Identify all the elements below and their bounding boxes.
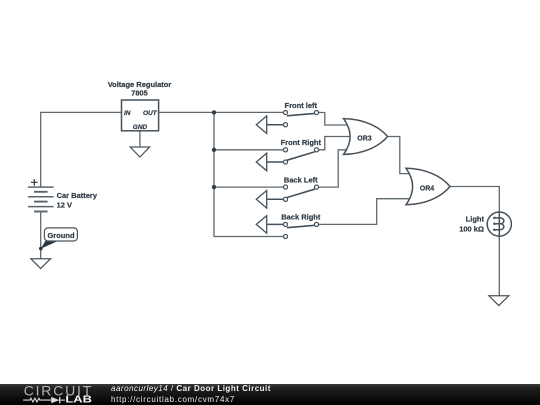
svg-text:LAB: LAB (65, 395, 92, 405)
switch arm SW4 (287, 225, 315, 227)
wire: regulator GND pin (139, 131, 141, 147)
svg-text:100 kΩ: 100 kΩ (459, 225, 484, 234)
or-gate OR3 (344, 119, 388, 155)
svg-text:Light: Light (466, 215, 485, 224)
switch SW3: Back Left (256, 175, 318, 208)
OR4 gate body (406, 168, 450, 204)
svg-text:Car Battery: Car Battery (57, 191, 98, 200)
switch arm SW2 (287, 152, 315, 160)
svg-text:Front Right: Front Right (281, 138, 322, 147)
wire: bus to Front Right switch (214, 149, 284, 151)
actuator triangle SW3 (256, 191, 266, 209)
actuator triangle SW1 (256, 116, 266, 134)
wire: battery + up to regulator IN (41, 112, 122, 187)
battery plus sign (31, 179, 38, 186)
lamp: Light 100 kΩ (487, 212, 511, 236)
OR3 gate body (344, 119, 388, 155)
footer text line 2 (111, 395, 235, 404)
SW1 terminal C (314, 110, 318, 114)
lamp envelope circle (487, 212, 511, 236)
wire: Back Left switch to OR3 input 3 (319, 150, 348, 187)
actuator link SW1 (267, 124, 284, 126)
wire: OR4 output to lamp (450, 187, 500, 213)
svg-text:OR4: OR4 (420, 186, 435, 193)
wire: bus to Back Left switch (214, 186, 284, 188)
or-gate OR4 (406, 168, 450, 204)
switch arm SW1 (287, 113, 315, 115)
annotation: Ground bubble (39, 228, 77, 251)
label: Voltage Regulator 7805 (108, 80, 172, 98)
wire: Front Right switch to OR3 input 2 (319, 137, 352, 150)
svg-text:Back Left: Back Left (284, 175, 318, 184)
svg-text:Back Right: Back Right (281, 213, 321, 222)
svg-text:Front left: Front left (285, 101, 318, 110)
ground bubble pointer (41, 240, 60, 249)
SW1 terminal B (283, 123, 287, 127)
wire: lamp to ground (498, 236, 500, 296)
actuator triangle SW4 (256, 216, 266, 234)
regulator body (122, 100, 159, 131)
lamp filament coil (494, 218, 504, 230)
switch arm SW3 (287, 189, 315, 197)
ground: under regulator (130, 147, 149, 157)
circuitlab logo (0, 384, 110, 405)
ground: below battery (31, 259, 51, 269)
svg-text:7805: 7805 (131, 89, 148, 98)
SW3 terminal B (283, 197, 287, 201)
wire: battery negative down to ground (40, 212, 42, 259)
svg-text:12 V: 12 V (57, 201, 72, 210)
voltage regulator U1 7805 (122, 100, 159, 131)
footer text line 1 (111, 384, 271, 393)
node: junction bus / Front Right row (212, 148, 216, 152)
footer bar (0, 384, 540, 405)
SW2 terminal A (283, 148, 287, 152)
label: Light 100 kΩ (459, 215, 484, 234)
wire: Back Right switch to OR4 input 2 (319, 199, 411, 225)
svg-text:GND: GND (133, 124, 148, 131)
svg-text:Voltage Regulator: Voltage Regulator (108, 80, 172, 89)
SW2 terminal C (314, 148, 318, 152)
actuator link SW3 (267, 198, 284, 200)
ground bubble box (44, 228, 77, 241)
svg-text:Ground: Ground (47, 231, 74, 240)
lamp lead wire (498, 212, 500, 236)
wire: regulator OUT to Front left switch (159, 111, 284, 113)
wire: OR3 output to OR4 input 1 (388, 137, 410, 174)
label: Car Battery 12 V (57, 191, 98, 210)
actuator triangle SW2 (256, 153, 266, 171)
SW2 terminal B (283, 160, 287, 164)
actuator link SW4 (267, 223, 284, 225)
node: junction bus / Back Left row (212, 185, 216, 189)
SW1 terminal A (283, 110, 287, 114)
SW4 terminal A (283, 222, 287, 226)
battery V1: Car Battery 12V (28, 187, 54, 211)
wire: Front left switch to OR3 input 1 (319, 113, 349, 126)
node: junction bus / Front left row (212, 110, 216, 114)
ground bubble anchor dot (39, 247, 43, 251)
svg-text:IN: IN (124, 110, 131, 117)
svg-text:OUT: OUT (143, 110, 158, 117)
ground: below lamp (489, 296, 509, 306)
SW3 terminal A (283, 185, 287, 189)
SW3 terminal C (314, 185, 318, 189)
actuator link SW2 (267, 161, 284, 163)
wire: distribution bus vertical (214, 112, 284, 236)
SW4 terminal B (283, 234, 287, 238)
svg-text:OR3: OR3 (357, 136, 372, 143)
switch SW2: Front Right (256, 138, 321, 171)
switch SW4: Back Right (mirrored) (256, 213, 321, 239)
SW4 terminal C (314, 222, 318, 226)
switch SW1: Front left (256, 101, 318, 134)
